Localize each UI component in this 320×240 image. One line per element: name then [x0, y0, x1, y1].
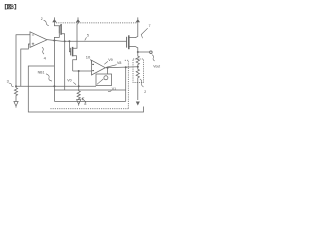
supply arrow left	[52, 17, 56, 23]
label 7	[141, 24, 150, 38]
wire feedback V1	[54, 41, 125, 102]
svg-text:8: 8	[84, 102, 86, 106]
label NB1	[38, 70, 52, 81]
svg-text:5: 5	[87, 34, 89, 38]
wire to op-amp2 plus input	[73, 70, 92, 72]
transistor Q5	[69, 23, 78, 71]
label V8	[106, 61, 121, 67]
wire to output terminal	[138, 51, 150, 53]
compensation block box	[96, 74, 112, 86]
ground arrow middle	[77, 100, 81, 106]
label 2	[41, 17, 49, 26]
node dot tap	[137, 66, 139, 68]
supply arrow right	[136, 17, 140, 23]
svg-text:V0: V0	[67, 78, 71, 82]
svg-text:3: 3	[7, 79, 9, 83]
node dot B	[68, 40, 70, 42]
node dot V8	[125, 66, 127, 68]
wire op-amp plus input	[21, 44, 30, 86]
resistor R3	[14, 86, 17, 101]
ground arrow right	[136, 102, 139, 105]
resistor R8	[77, 86, 80, 100]
label 10	[86, 54, 92, 63]
node dot A	[53, 40, 55, 42]
label V1	[108, 87, 116, 92]
wire op-amp2 output	[105, 66, 138, 69]
svg-text:2: 2	[144, 90, 146, 94]
wire Q2 drain down to V1 line	[64, 41, 66, 90]
resistor R2	[136, 67, 139, 100]
label V9	[104, 58, 112, 64]
ground arrow left	[14, 102, 18, 108]
svg-text:V8: V8	[117, 61, 121, 65]
label 2b	[140, 79, 146, 94]
chip boundary dashed top edge	[56, 22, 137, 24]
svg-text:7: 7	[149, 24, 151, 28]
svg-text:10: 10	[86, 54, 91, 59]
node dot loop	[107, 67, 109, 69]
op-amp U10	[92, 60, 106, 75]
svg-text:Vout: Vout	[153, 65, 160, 69]
label 3	[7, 79, 14, 86]
output terminal circle	[150, 51, 153, 54]
resistor R1	[136, 52, 139, 67]
node dot V0 top	[78, 70, 80, 72]
wire op-amp minus input	[16, 35, 30, 86]
solid box lower-left edge	[28, 66, 143, 112]
node dot left	[15, 85, 17, 87]
svg-text:V1: V1	[112, 87, 116, 91]
label Vout	[152, 55, 160, 69]
svg-text:NB1: NB1	[38, 70, 45, 74]
wire op-amp output rail	[47, 40, 127, 42]
wire left rail	[16, 85, 96, 87]
label 5	[85, 34, 89, 41]
label 8	[82, 98, 86, 106]
transistor Q2	[54, 23, 64, 41]
svg-text:4: 4	[44, 55, 47, 60]
node dot NB1-85	[53, 85, 55, 87]
transistor Q6	[127, 23, 138, 52]
inner dashed box right edge	[125, 60, 129, 108]
figure label [図3]	[5, 5, 15, 10]
resistor block dashed box	[133, 59, 144, 83]
op-amp U1	[30, 32, 47, 48]
inner dashed line bottom	[50, 108, 128, 110]
label 4	[42, 47, 47, 60]
svg-text:V9: V9	[108, 58, 112, 62]
compensation block diagonal	[97, 79, 103, 84]
node dot Q2 drain	[64, 40, 66, 42]
node dot V0	[78, 85, 80, 87]
wire V0 column	[78, 71, 80, 86]
svg-text:2: 2	[41, 17, 43, 21]
label V0	[67, 78, 76, 84]
supply arrow middle	[76, 17, 80, 23]
compensation block circle	[104, 76, 108, 80]
wire into compensation block	[107, 68, 109, 74]
node dot drain Q6	[137, 51, 139, 53]
